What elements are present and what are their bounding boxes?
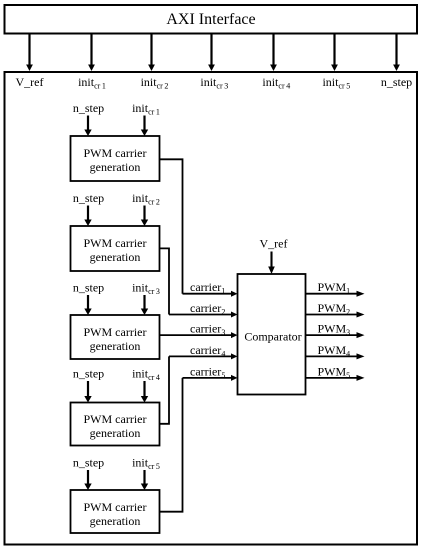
- box AXI Interface: [5, 5, 418, 34]
- wire arrow carrier5 into comparator: [183, 375, 238, 381]
- box Comparator (U6): [238, 274, 306, 395]
- svg-text:generation: generation: [90, 514, 141, 528]
- wire arrow init_cr2 into block 2: [141, 206, 148, 227]
- svg-text:n_step: n_step: [381, 75, 412, 89]
- box PWM carrier generation 2 (U2): [71, 226, 160, 271]
- wire arrow PWM4 output: [306, 353, 365, 359]
- svg-text:n_step: n_step: [73, 366, 104, 380]
- box PWM carrier generation 5 (U5): [71, 490, 160, 533]
- svg-text:Comparator: Comparator: [244, 330, 301, 344]
- wire block 5 output to carrier5 row: [160, 378, 183, 512]
- wire arrow PWM2 output: [306, 312, 365, 318]
- box PWM carrier generation 3 (U3): [71, 315, 160, 359]
- wire arrow PWM3 output: [306, 332, 365, 338]
- svg-text:generation: generation: [90, 160, 141, 174]
- wire arrow carrier2 into comparator: [169, 312, 238, 318]
- wire arrow carrier1 into comparator: [183, 291, 238, 297]
- wire arrow PWM1 output: [306, 291, 365, 297]
- wire arrow init_cr4 into block 4: [141, 381, 148, 403]
- svg-text:generation: generation: [90, 250, 141, 264]
- wire arrow AXI to init_cr3: [208, 34, 215, 72]
- svg-text:PWM carrier: PWM carrier: [84, 500, 147, 514]
- wire arrow n_step into block 2: [84, 206, 91, 227]
- svg-text:n_step: n_step: [73, 455, 104, 469]
- wire arrow n_step into block 4: [84, 381, 91, 403]
- wire arrow AXI to init_cr2: [148, 34, 155, 72]
- svg-text:V_ref: V_ref: [260, 237, 288, 251]
- svg-text:PWM carrier: PWM carrier: [84, 412, 147, 426]
- svg-text:AXI Interface: AXI Interface: [166, 11, 255, 28]
- wire arrow AXI to init_cr5: [331, 34, 338, 72]
- box PWM carrier generation 4 (U4): [71, 403, 160, 446]
- svg-text:n_step: n_step: [73, 101, 104, 115]
- wire arrow PWM5 output: [306, 375, 365, 381]
- svg-text:PWM carrier: PWM carrier: [84, 236, 147, 250]
- svg-text:n_step: n_step: [73, 191, 104, 205]
- wire block 4 output to carrier4 row: [160, 356, 170, 423]
- wire block 2 output to carrier2 row: [160, 248, 170, 314]
- svg-text:generation: generation: [90, 426, 141, 440]
- wire arrow init_cr1 into block 1: [141, 116, 148, 137]
- wire arrow AXI to V_ref: [26, 34, 33, 72]
- wire arrow n_step into block 1: [84, 116, 91, 137]
- svg-text:generation: generation: [90, 339, 141, 353]
- wire arrow init_cr5 into block 5: [141, 470, 148, 490]
- wire arrow carrier3 from block 3 into comparator: [160, 332, 238, 338]
- wire arrow AXI to init_cr1: [88, 34, 95, 72]
- svg-text:PWM carrier: PWM carrier: [84, 325, 147, 339]
- wire arrow AXI to init_cr4: [270, 34, 277, 72]
- box PWM carrier generation 1 (U1): [71, 136, 160, 181]
- wire arrow carrier4 into comparator: [169, 353, 238, 359]
- wire arrow n_step into block 3: [84, 295, 91, 315]
- svg-text:V_ref: V_ref: [16, 75, 44, 89]
- wire arrow n_step into block 5: [84, 470, 91, 490]
- wire arrow AXI to n_step: [393, 34, 400, 72]
- wire arrow V_ref into comparator: [268, 252, 275, 275]
- svg-text:PWM carrier: PWM carrier: [84, 146, 147, 160]
- wire block 1 output to carrier1 row: [160, 159, 183, 293]
- wire arrow init_cr3 into block 3: [141, 295, 148, 315]
- svg-text:n_step: n_step: [73, 281, 104, 295]
